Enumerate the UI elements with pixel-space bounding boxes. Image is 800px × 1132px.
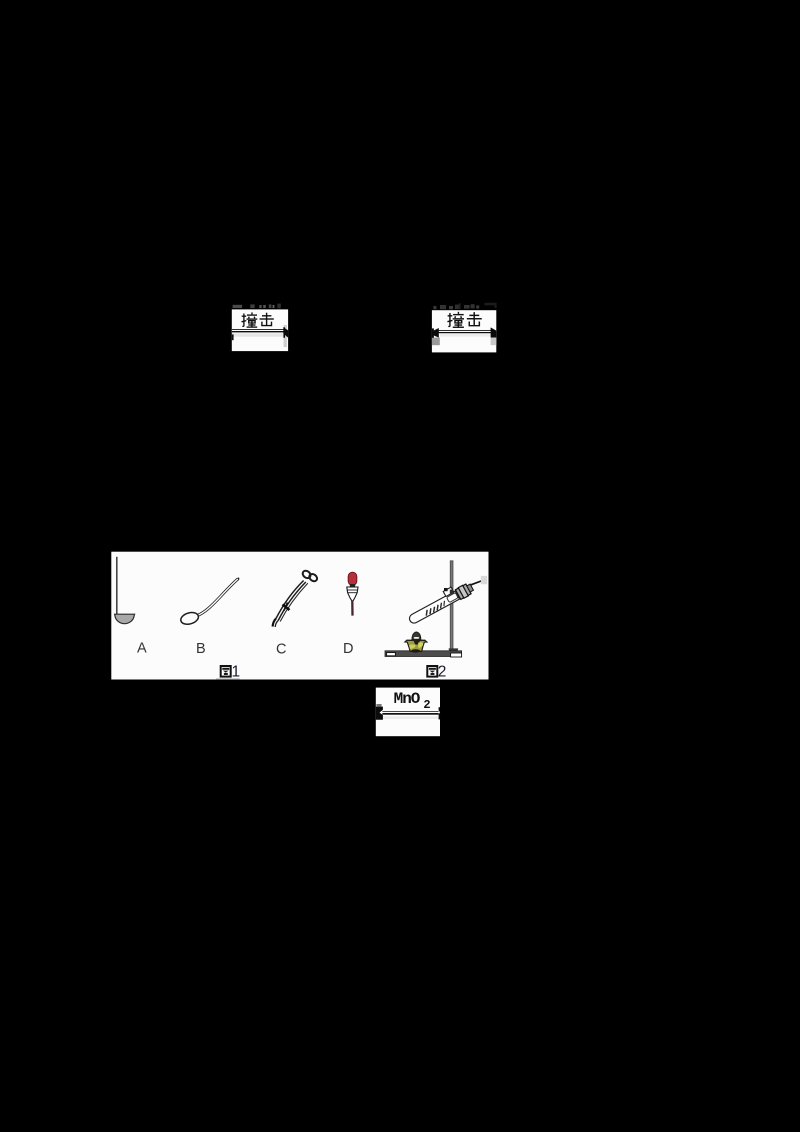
delivery tube <box>471 581 481 585</box>
small black mark left edge (box 1) <box>232 334 234 340</box>
alcohol lamp: body bowl <box>405 640 427 651</box>
svg-text:C: C <box>276 641 286 657</box>
svg-text:B: B <box>196 641 206 657</box>
crucible tongs C: handle loops <box>301 569 312 579</box>
tube mouth highlight capsule <box>447 593 459 603</box>
medicine spoon B: hook tip <box>237 578 238 580</box>
alcohol lamp: cap white band <box>414 637 419 639</box>
iron stand: base plate <box>385 651 462 657</box>
gray patch left side (box 2) <box>432 338 440 346</box>
figure-2 caption icon 图 <box>427 666 437 677</box>
double line arrow in MnO2 panel <box>382 711 440 712</box>
light band under line in box 1 <box>232 333 283 336</box>
figure panel (white) <box>111 552 488 680</box>
crucible tongs C: arms <box>276 581 304 619</box>
test tube (rotated group) <box>407 582 475 626</box>
svg-text:2: 2 <box>438 663 447 680</box>
alcohol lamp: highlight right <box>418 642 423 647</box>
svg-text:A: A <box>137 641 147 657</box>
iron stand: left foot <box>387 653 396 656</box>
dropper D: neck <box>350 584 355 587</box>
character 击 (box 2) <box>467 312 482 326</box>
combustion spoon A: bowl <box>115 614 135 623</box>
gray patch right side (box 2) <box>491 337 497 345</box>
light band under line (MnO2 panel) <box>383 716 440 719</box>
cropped text fragments above impact box 2 <box>433 303 496 310</box>
gray square at panel edge <box>481 576 487 584</box>
rubber stopper assembly <box>455 584 471 599</box>
dropper D: glass collar <box>347 587 358 601</box>
double line arrow in box 1 <box>232 329 284 330</box>
left arrow blob (box 2) <box>432 328 439 338</box>
left arrow blob (MnO2 panel) <box>376 704 381 707</box>
gray underline below figure-1 caption <box>216 678 240 680</box>
dropper D: stem <box>351 601 354 616</box>
light band under line in box 2 <box>440 333 490 336</box>
alcohol lamp: dark blotch under cap <box>414 640 420 644</box>
double line arrow in box 2 <box>437 330 491 331</box>
alcohol lamp: highlight lower-left <box>409 645 416 649</box>
svg-text:1: 1 <box>231 663 240 680</box>
medicine spoon B: bowl <box>179 611 199 627</box>
character 击 (box 1) <box>260 313 274 326</box>
combustion spoon A: handle <box>116 557 118 615</box>
clamp on rod <box>443 587 454 596</box>
svg-text:D: D <box>343 641 353 657</box>
impact box 1 (white panel) <box>232 309 288 351</box>
cropped text fragments above impact box 1 <box>233 304 281 309</box>
alcohol lamp: bottom blob <box>411 649 420 652</box>
iron stand: rod-base connector <box>449 648 459 652</box>
reagent hatch marks inside tube <box>424 610 429 616</box>
alcohol lamp: top rim line <box>406 640 425 641</box>
gray strip right side of box 1 <box>284 325 287 347</box>
svg-text:MnO: MnO <box>394 690 421 708</box>
alcohol lamp: cap dome <box>412 632 421 640</box>
impact box 2 (white panel) <box>432 310 496 352</box>
svg-text:2: 2 <box>423 698 430 712</box>
right arrow blob (box 2) <box>491 327 497 337</box>
right edge tab (MnO2 panel) <box>439 707 441 719</box>
arrowhead right (box 1) <box>283 327 288 338</box>
crucible tongs C: rivet <box>283 605 290 611</box>
character 撞 (box 1) <box>242 312 258 327</box>
character 撞 (box 2) <box>447 312 464 327</box>
dropper D: rubber bulb <box>348 572 357 585</box>
crucible tongs C: tips <box>273 619 276 627</box>
MnO2 panel (white) <box>376 688 440 737</box>
iron stand: rod <box>450 561 453 650</box>
iron stand: right foot <box>451 653 462 657</box>
figure-1 caption icon 图 <box>221 666 231 677</box>
medicine spoon B: handle <box>197 579 238 616</box>
